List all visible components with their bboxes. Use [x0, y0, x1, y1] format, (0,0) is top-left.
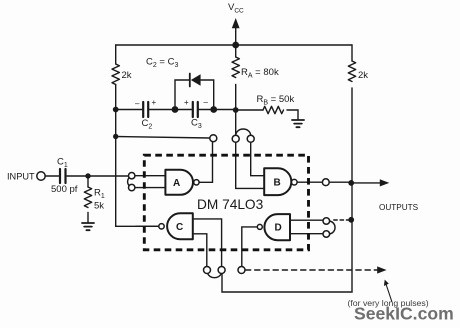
svg-text:C2 = C3: C2 = C3: [146, 57, 178, 70]
svg-text:INPUT: INPUT: [7, 171, 35, 181]
svg-text:OUTPUTS: OUTPUTS: [379, 203, 419, 212]
svg-text:2k: 2k: [358, 70, 368, 81]
svg-text:SeekIC.com: SeekIC.com: [354, 304, 454, 324]
svg-text:B: B: [274, 178, 281, 189]
svg-text:–: –: [204, 98, 209, 107]
svg-text:5k: 5k: [94, 201, 104, 212]
svg-text:RB = 50k: RB = 50k: [257, 94, 295, 107]
svg-text:500 pf: 500 pf: [51, 184, 78, 195]
svg-text:RA = 80k: RA = 80k: [241, 67, 279, 80]
svg-text:C: C: [176, 222, 183, 233]
svg-text:+: +: [184, 98, 189, 107]
svg-text:2k: 2k: [122, 70, 132, 81]
svg-text:DM 74LO3: DM 74LO3: [197, 197, 264, 212]
svg-text:D: D: [275, 223, 282, 234]
svg-text:+: +: [152, 98, 157, 107]
svg-text:A: A: [173, 178, 180, 189]
svg-text:–: –: [135, 99, 140, 108]
